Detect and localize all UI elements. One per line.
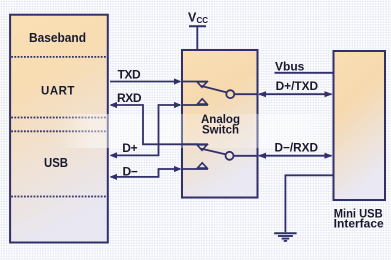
switch SW2 arm xyxy=(201,149,226,155)
D+/TXD wire xyxy=(259,93,332,95)
D-/RXD wire xyxy=(259,155,332,157)
svg-text:D+: D+ xyxy=(122,141,137,155)
Vcc label xyxy=(188,10,208,25)
D+ arrowhead into USB block xyxy=(110,152,118,158)
TXD arrowhead into switch xyxy=(174,78,182,84)
D- wire xyxy=(111,169,180,177)
svg-text:D−/RXD: D−/RXD xyxy=(275,141,319,155)
dotted divider 3 xyxy=(11,130,107,132)
svg-text:RXD: RXD xyxy=(117,91,142,105)
switch SW1 contact TXD xyxy=(182,82,208,88)
svg-text:TXD: TXD xyxy=(118,67,142,81)
svg-text:Switch: Switch xyxy=(202,123,239,137)
D-/RXD arrowhead left xyxy=(258,153,266,159)
watermark haze xyxy=(55,114,331,148)
switch SW2 contact D- xyxy=(182,163,208,169)
D+/TXD arrowhead left xyxy=(258,91,266,97)
svg-text:USB: USB xyxy=(44,155,68,170)
svg-text:D+/TXD: D+/TXD xyxy=(276,79,319,93)
baseband/UART/USB block xyxy=(10,15,108,243)
D+ wire (crossover up to switch) xyxy=(111,105,180,155)
svg-text:Vbus: Vbus xyxy=(275,60,305,74)
D+ arrowhead into switch xyxy=(174,102,182,108)
mini USB interface block xyxy=(334,51,386,200)
D-/RXD arrowhead right xyxy=(325,153,333,159)
svg-text:UART: UART xyxy=(41,86,75,98)
switch SW1 contact D+ xyxy=(182,99,208,105)
TXD wire xyxy=(110,81,180,83)
svg-text:Interface: Interface xyxy=(334,219,384,231)
switch SW2 pole circle xyxy=(226,152,234,160)
switch SW2 contact RXD xyxy=(182,144,208,150)
Vbus wire xyxy=(275,72,334,74)
RXD wire (to UART, crossover down) xyxy=(111,105,199,144)
Analog Switch label xyxy=(201,112,240,137)
svg-text:CC: CC xyxy=(197,16,209,25)
switch SW1 arm xyxy=(201,86,227,93)
switch SW1 pole circle xyxy=(226,90,234,98)
D+/TXD arrowhead right xyxy=(325,91,333,97)
dotted divider 2 xyxy=(11,117,107,119)
Vcc supply bar xyxy=(189,25,206,27)
Mini USB Interface label xyxy=(334,209,384,231)
switch SW1 pole wire xyxy=(234,93,257,95)
Vcc wire xyxy=(196,26,198,50)
dotted divider 4 xyxy=(11,196,107,198)
switch SW2 pole wire xyxy=(234,155,258,157)
D- arrowhead into switch xyxy=(174,166,182,172)
RXD arrowhead into UART xyxy=(110,102,118,108)
svg-text:Baseband: Baseband xyxy=(29,30,86,45)
analog switch block U1 xyxy=(182,50,258,198)
ground wire xyxy=(285,175,333,232)
dotted divider 1 xyxy=(11,56,107,58)
ground symbol xyxy=(274,233,296,241)
D- arrowhead into USB block xyxy=(110,174,118,180)
